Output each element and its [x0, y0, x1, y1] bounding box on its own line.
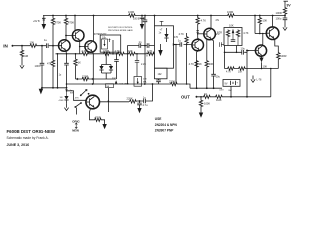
capacitor C pot left lead	[220, 42, 225, 47]
wire Q2 emitter to Q3 base	[80, 40, 85, 53]
wire switch lower drop	[76, 108, 78, 115]
resistor R-supply	[283, 7, 286, 15]
wire Q5 base bias chain x206.8	[206, 40, 208, 60]
diode inside box	[166, 28, 168, 34]
svg-text:+9V B: +9V B	[33, 20, 40, 23]
transistor Q1	[59, 40, 71, 52]
wire pot row y52.3	[225, 52, 248, 97]
resistor R bias Q1 bottom x53	[52, 46, 54, 60]
svg-text:470K: 470K	[55, 21, 61, 25]
svg-text:100u: 100u	[276, 17, 282, 21]
svg-text:Schematic made by Frank A.: Schematic made by Frank A.	[7, 136, 49, 140]
resistor R x75.5	[75, 53, 77, 55]
arrow inside box lower	[160, 44, 162, 50]
wire Q3 collector to rail	[93, 15, 95, 17]
resistor R y68.5 a	[227, 67, 235, 70]
svg-text:47K: 47K	[75, 97, 79, 99]
capacitor C stub top	[160, 21, 164, 26]
resistor R series 10K	[128, 52, 136, 55]
resistor R series 4.7K a	[117, 52, 125, 55]
switch box left	[154, 16, 156, 26]
resistor pot right	[236, 30, 239, 38]
wire box drop x108.4	[107, 88, 109, 112]
svg-text:DISTORTION CONTROL: DISTORTION CONTROL	[108, 27, 133, 29]
transistor Q2	[72, 30, 84, 42]
node arrows wire A	[76, 78, 79, 80]
ground supply	[283, 24, 287, 31]
sub box bottom	[155, 68, 168, 79]
svg-text:100R: 100R	[128, 10, 134, 14]
wire Q6b collector up	[261, 34, 264, 46]
wire Q5 collector to rail	[210, 15, 212, 17]
wire Q2 collector to rail	[74, 15, 76, 17]
node input junction	[21, 45, 23, 47]
wire Q6 collector to rail	[272, 15, 274, 17]
svg-text:B7R: B7R	[217, 30, 222, 34]
svg-text:IN: IN	[3, 44, 8, 49]
svg-text:NEW: NEW	[72, 129, 79, 133]
node out junctions	[230, 96, 232, 98]
diode D1 clip	[105, 53, 107, 55]
capacitor C series Q4 base	[180, 42, 182, 47]
ground bus left y87.8	[42, 87, 67, 89]
resistor R-rail2	[227, 14, 235, 17]
resistor R series 2.2K	[82, 52, 90, 55]
ground shunt cap	[137, 108, 141, 113]
wire Q3 emitter down	[91, 52, 94, 84]
svg-text:470: 470	[174, 36, 179, 39]
svg-text:2N3907 PNP: 2N3907 PNP	[155, 129, 174, 133]
svg-text:1M: 1M	[24, 54, 29, 58]
wire out	[198, 96, 271, 98]
svg-text:F600B DIST ORIG-NEW: F600B DIST ORIG-NEW	[7, 129, 56, 134]
svg-text:2.2K: 2.2K	[82, 49, 88, 53]
svg-text:JUNE 3, 2016: JUNE 3, 2016	[7, 143, 30, 147]
svg-text:OUT: OUT	[181, 95, 190, 100]
svg-text:2N2204 & NPN: 2N2204 & NPN	[155, 123, 178, 127]
resistor R 100K shunt out	[200, 96, 202, 98]
diode D2 clip	[109, 66, 113, 70]
wire Q1 emitter down	[65, 50, 68, 53]
svg-text:10u: 10u	[241, 47, 246, 51]
svg-text:10K: 10K	[263, 64, 268, 68]
wire mid signal bus y53.8	[56, 53, 155, 55]
resistor R rail to Q4 collector x197.7	[197, 15, 199, 17]
switch S1 lower lever	[74, 106, 76, 108]
svg-text:4.7K: 4.7K	[226, 71, 231, 74]
ground Q7 emitter	[102, 124, 106, 129]
svg-text:470R: 470R	[95, 116, 101, 120]
resistor R 1K out	[203, 95, 211, 98]
svg-text:4u28: 4u28	[216, 99, 222, 102]
capacitor C-supply	[283, 18, 288, 20]
resistor R-in series	[30, 44, 38, 47]
wire Q6b emitter arrow down	[261, 55, 263, 57]
svg-text:10K: 10K	[128, 49, 133, 53]
capacitor C bypass x66.5	[66, 53, 68, 55]
wire y68.5 feedback row	[225, 68, 279, 70]
svg-text:1K: 1K	[199, 62, 202, 66]
svg-text:10K: 10K	[263, 19, 268, 23]
wire Q5 base from Q4 collector	[198, 33, 204, 35]
capacitor C bypass2	[147, 43, 149, 48]
resistor pot left	[226, 30, 229, 38]
svg-text:USE: USE	[155, 117, 162, 121]
svg-text:2.2K: 2.2K	[141, 63, 146, 66]
capacitor C-in series	[46, 43, 48, 48]
wire top supply rail	[43, 15, 285, 17]
svg-text:220K: 220K	[169, 80, 175, 84]
resistor R series out2	[215, 95, 223, 98]
svg-text:100R: 100R	[280, 54, 286, 58]
svg-text:1K: 1K	[204, 92, 207, 96]
wire feedback riser x270.8	[270, 69, 272, 97]
wire Q7 emitter chain	[90, 108, 95, 120]
wire Q6b base	[247, 50, 255, 52]
wire x127.5 lower	[127, 54, 129, 84]
capacitor C x137 drop	[136, 53, 138, 55]
node x176	[175, 44, 177, 46]
svg-text:100R: 100R	[276, 11, 282, 15]
wire Q1 collector to Q2 base	[65, 35, 67, 37]
resistor R x259.8	[259, 15, 261, 17]
transistor Q5	[204, 28, 216, 40]
box relay under wire B	[106, 84, 114, 88]
wire rail bias x255	[254, 15, 256, 17]
pot wiper arrow up	[232, 29, 235, 34]
svg-text:10K: 10K	[229, 24, 234, 28]
wire Q6 base row y33.5	[255, 33, 266, 35]
svg-text:4.7K: 4.7K	[179, 32, 185, 36]
svg-text:4.5V: 4.5V	[219, 90, 224, 92]
svg-text:2N: 2N	[216, 18, 219, 22]
svg-text:sw: sw	[70, 91, 73, 94]
wire Q4 emitter down	[197, 50, 200, 88]
svg-text:4.7u: 4.7u	[143, 103, 149, 107]
capacitor C bypass1	[139, 43, 141, 48]
wire bypass upper y45.6	[128, 46, 155, 54]
wire Q4 collector up	[198, 38, 200, 40]
resistor R 220K wire B	[170, 82, 178, 85]
svg-text:470K: 470K	[68, 21, 74, 25]
capacitor C series x243	[242, 50, 244, 55]
svg-text:102: 102	[158, 73, 163, 76]
wire x145 vertical rail to wireB	[144, 15, 146, 17]
svg-text:1N: 1N	[60, 97, 63, 99]
svg-text:4.7K: 4.7K	[201, 18, 207, 22]
wire Q5 emitter chain x213	[211, 39, 214, 74]
resistor R 220R on wire A	[82, 77, 90, 80]
wire pot wiper to Q4	[174, 44, 193, 46]
resistor R y68.5 b	[238, 67, 246, 70]
capacitor C series out	[144, 99, 146, 104]
svg-text:100n: 100n	[35, 64, 41, 68]
node junction x139.5	[139, 100, 141, 102]
svg-text:PROVIDES MORE GAIN: PROVIDES MORE GAIN	[108, 29, 133, 32]
resistor R bias Q1 top x53	[52, 15, 54, 17]
transistor Q3	[85, 41, 97, 53]
capacitor C electrolytic shunt	[139, 101, 141, 103]
resistor R series 4.7K b	[147, 52, 155, 55]
transistor Q4	[192, 39, 204, 51]
capacitor C x116.5	[116, 53, 118, 55]
ground arrow bus	[41, 88, 42, 89]
wire battery lead	[230, 86, 232, 97]
svg-text:4.7K: 4.7K	[189, 62, 195, 66]
svg-text:10K: 10K	[209, 62, 214, 66]
svg-text:9V: 9V	[287, 4, 292, 8]
wire pot leads down	[224, 46, 226, 69]
svg-text:10K: 10K	[238, 71, 243, 74]
wire x113 pot wiper drop	[112, 40, 114, 54]
svg-text:47K: 47K	[47, 61, 52, 65]
svg-text:100K: 100K	[204, 101, 210, 105]
capacitor C below box	[158, 79, 160, 80]
resistor R series 470R	[103, 52, 111, 55]
wire Q6 emitter chain	[274, 39, 278, 52]
potentiometer volume wiper arrow	[115, 80, 118, 83]
capacitor C shunt x42	[41, 45, 43, 47]
ground near battery	[251, 76, 255, 83]
svg-text:100 BPL: 100 BPL	[133, 17, 143, 20]
wire A y79	[76, 78, 117, 80]
wire y88.2	[190, 87, 222, 89]
svg-text:10K: 10K	[146, 53, 150, 55]
ground out	[200, 112, 202, 113]
transistor Q7	[86, 95, 100, 109]
svg-text:220R: 220R	[82, 74, 88, 78]
resistor R 220K collector	[129, 100, 137, 103]
ground input	[20, 62, 24, 69]
svg-text:4.7K: 4.7K	[243, 31, 249, 35]
resistor R emitter Q7	[94, 118, 102, 121]
potentiometer master box	[134, 77, 142, 87]
wire box feed y45.6 cap	[144, 45, 146, 47]
resistor R 1M to ground	[21, 46, 23, 50]
wire input	[14, 45, 59, 47]
svg-text:4148: 4148	[59, 100, 65, 102]
svg-text:L-78: L-78	[257, 78, 262, 81]
svg-text:1K: 1K	[78, 60, 81, 64]
svg-text:220K: 220K	[127, 96, 133, 100]
transistor Q6b	[255, 45, 266, 56]
svg-text:VOLUME: VOLUME	[120, 84, 130, 86]
wire Q7 base	[67, 91, 86, 101]
svg-text:100R: 100R	[227, 10, 233, 14]
resistor R-rail1	[128, 14, 136, 17]
svg-text:10K: 10K	[30, 40, 35, 44]
resistor R collector Q1 x66	[65, 15, 67, 17]
battery B1 box	[223, 80, 240, 87]
diode chain x66.5	[66, 87, 68, 89]
wire emitter shunt x57.5	[57, 53, 59, 55]
svg-text:10u: 10u	[216, 74, 221, 78]
wire Q7 collector out	[100, 84, 153, 102]
svg-text:9V: 9V	[225, 83, 228, 86]
transistor Q6	[266, 27, 279, 40]
wire B y84	[67, 84, 191, 88]
